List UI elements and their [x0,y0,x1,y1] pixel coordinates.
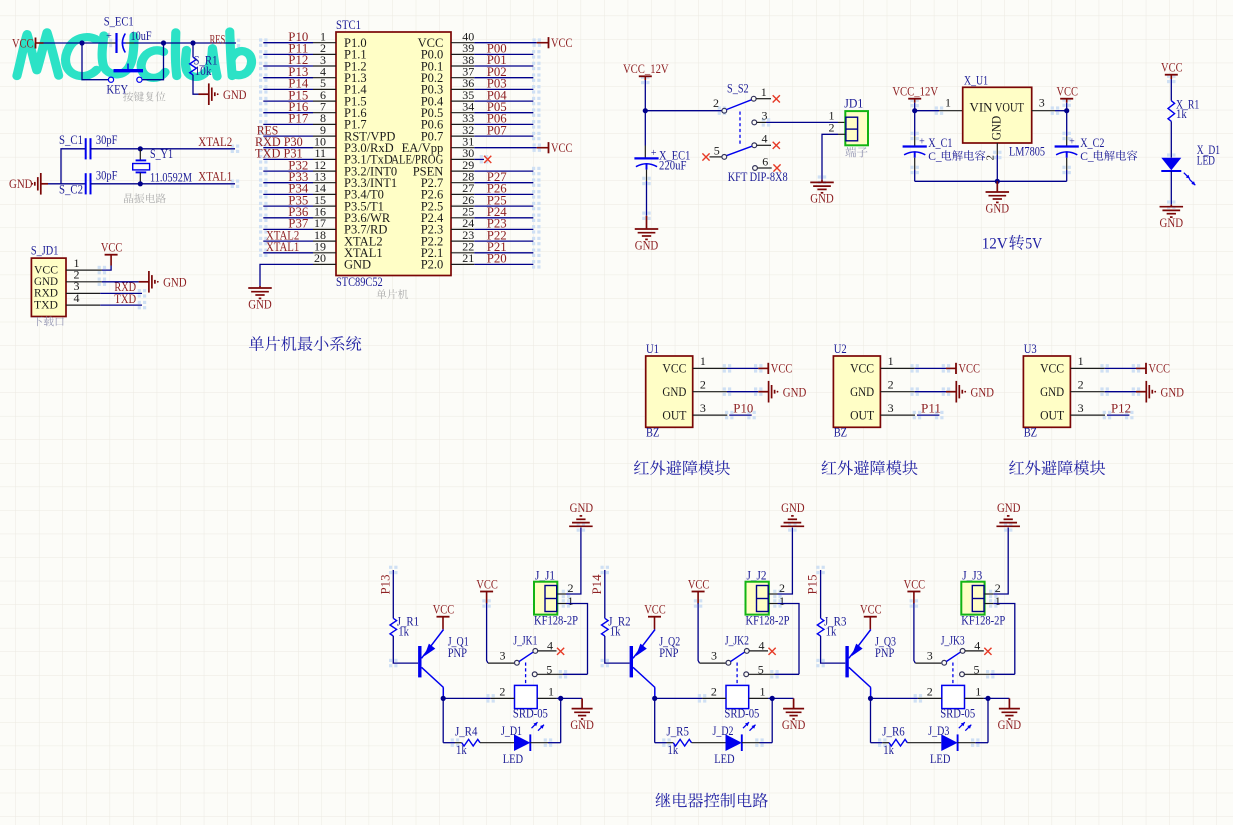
relay part SRD-05 [724,707,759,721]
svg-text:30pF: 30pF [96,168,118,182]
J_JK1 pin 3 [500,648,520,665]
svg-text:6: 6 [762,154,768,168]
svg-text:2: 2 [888,378,894,392]
resistor J_R6 [882,724,907,757]
ground (crystal) [9,173,48,195]
ground (flipped) [781,500,805,526]
module U3 designator [1024,342,1037,356]
J_JK2 pin 3 [711,648,731,665]
svg-text:1: 1 [779,594,785,608]
svg-text:2: 2 [829,121,835,135]
switch J_JK3 designator [941,634,965,648]
svg-text:C_: C_ [1080,151,1094,163]
svg-text:XTAL2: XTAL2 [198,134,232,149]
title 12V转5V [982,235,1043,253]
wire J_R1 to base [393,636,418,663]
svg-text:VCC: VCC [1040,362,1064,376]
svg-text:TXD: TXD [114,291,136,306]
svg-text:X_C2: X_C2 [1080,136,1104,150]
power VCC (J_Q2 emitter) [644,602,666,630]
U3 pin 1 wire [1070,354,1136,368]
LED J_D2 [713,722,756,766]
S_S2 pin 1 wire / no-ERC [751,85,780,103]
svg-text:3: 3 [711,648,717,662]
svg-text:GND: GND [163,274,187,289]
svg-text:11.0592M: 11.0592M [150,170,192,184]
svg-text:LED: LED [930,752,950,766]
svg-text:+: + [1069,136,1075,147]
module U2 type BZ [834,425,847,439]
STC1 pin 15 (P3.5/T1) wire / net P35 [263,192,384,213]
svg-text:VCC: VCC [551,35,573,50]
svg-text:2: 2 [711,685,717,699]
svg-text:1: 1 [548,685,554,699]
svg-text:OUT: OUT [1040,408,1064,422]
svg-text:BZ: BZ [1024,425,1037,439]
svg-text:LED: LED [1197,153,1215,167]
STC1 pin 9 (RST/VPD) wire / net RES [257,122,396,143]
connector J_J3 designator [962,569,982,583]
STC1 pin 11 (P3.1/TxD) wire / net TXD P31 [255,146,393,167]
wire X_EC1 to ground [646,170,648,216]
module U3 type BZ [1024,425,1037,439]
U3 pin 2 wire [1070,378,1136,392]
J_J3 pin 1 wire [985,594,1015,674]
power VCC_12V (input) [623,61,669,80]
power VCC [946,361,980,376]
U3 pin name VCC [1040,362,1064,376]
wire net P13 to J_R1 [392,570,394,618]
svg-text:1: 1 [945,95,951,109]
wire VCC to J_JK2 pin 3 [698,603,725,663]
svg-text:VCC: VCC [850,362,874,376]
svg-text:U3: U3 [1024,342,1037,356]
svg-text:OUT: OUT [850,408,874,422]
svg-text:2: 2 [713,96,719,110]
title 红外避障模块 [634,460,730,475]
svg-text:S_C2: S_C2 [59,183,83,197]
ground (relay) [570,698,594,732]
wire LED row left [655,742,674,744]
svg-text:LED: LED [503,752,523,766]
STC1 pin 33 (P0.6) wire / net P06 [421,111,534,132]
svg-text:J_J2: J_J2 [747,569,767,583]
wire J_R6 to J_D3 [907,742,941,744]
STC1 pin 14 (P3.4/T0) wire / net P34 [263,181,384,202]
J_J2 pin 1 wire [769,594,799,674]
STC1 pin 26 (P2.5) wire / net P25 [421,192,534,213]
S_S2 pin 5 wire / no-ERC [702,144,726,161]
wire X_C2 lower [1066,158,1068,182]
J_J1 pin 2 wire [557,528,581,595]
svg-text:1k: 1k [883,743,894,757]
svg-text:1: 1 [761,85,767,99]
net label P13 (rotated) [377,575,392,595]
J_J3 pin 2 wire [985,528,1009,595]
wire J_D3 to junction [958,742,988,744]
wire junction to S_EC1 [82,42,117,44]
svg-text:GND: GND [989,116,1003,141]
svg-text:RES: RES [210,32,226,47]
svg-text:VCC: VCC [1056,84,1078,99]
wire junction to LED cathode [560,698,562,742]
S_S2 pin 4 wire / no-ERC [752,132,780,149]
resistor J_R2 [602,614,631,638]
svg-text:P12: P12 [1111,400,1131,415]
svg-text:1k: 1k [456,743,467,757]
J_JK1 pin 4 / no-ERC [533,638,564,655]
svg-text:3: 3 [888,401,894,415]
IC STC1 body [336,32,451,276]
LED J_D3 [928,722,971,766]
transistor J_Q3 (PNP) [847,630,896,688]
svg-text:S_C1: S_C1 [59,133,83,147]
wire VCC to pin3 [1066,103,1068,111]
relay pin 2 wire [871,685,942,699]
STC1 pin 2 (P1.1) wire / net P11 [263,41,366,62]
resistor J_R5 [667,724,692,757]
svg-text:1: 1 [975,685,981,699]
connector J_J1 designator [535,569,555,583]
relay pin 2 wire [443,685,514,699]
svg-text:GND: GND [635,237,659,252]
S_JD1 pin 3 wire / net RXD [66,279,142,294]
wire J_D2 to junction [742,742,772,744]
wire S_EC1 to junction [126,42,164,44]
svg-text:KF128-2P: KF128-2P [534,613,578,627]
svg-text:J_D3: J_D3 [928,724,949,738]
svg-text:J_J3: J_J3 [962,569,982,583]
capacitor S_C1 [59,133,117,159]
svg-text:GND: GND [1160,215,1184,230]
svg-text:VCC: VCC [12,35,34,50]
net label XTAL2 [198,134,232,149]
wire VCC_12V down [644,80,646,111]
wire collector to LED row [442,698,444,742]
S_JD1 pin name TXD [34,297,58,311]
wire X_C1 upper [914,111,916,146]
title 红外避障模块 [1009,460,1105,475]
net label P15 (rotated) [805,575,820,595]
module U1 body [646,356,693,427]
power VCC (J_Q3 emitter) [860,602,882,630]
wire J_R3 to base [821,636,846,663]
junction [912,108,917,113]
STC1 pin 36 (P0.3) wire / net P03 [421,76,534,97]
svg-text:P2.0: P2.0 [421,258,444,272]
svg-text:1k: 1k [610,625,621,639]
svg-text:2: 2 [499,685,505,699]
svg-text:BZ: BZ [834,425,847,439]
svg-text:GND: GND [783,384,807,399]
svg-text:5V: 5V [1025,235,1042,253]
logo MCUclub [17,32,252,78]
svg-text:2: 2 [779,581,785,595]
wire junction to S_S2 pin 2 [645,110,722,112]
svg-text:VOUT: VOUT [995,100,1024,114]
module U1 designator [646,342,659,356]
svg-text:SRD-05: SRD-05 [724,707,759,721]
X_U1 pin name VOUT [995,100,1024,114]
svg-text:1: 1 [700,354,706,368]
svg-text:2: 2 [1078,378,1084,392]
U2 pin 2 wire [880,378,946,392]
wire S_C1 to XTAL2 [91,148,236,150]
wire ground to caps [48,149,86,184]
module U3 body [1023,356,1070,427]
svg-text:+: + [919,136,925,147]
STC1 pin 31 (EA/Vpp) wire [402,135,537,156]
svg-text:VCC: VCC [688,576,710,591]
wire collector to LED row [870,698,872,742]
U2 pin name OUT [850,408,874,422]
STC1 pin 29 (PSEN) wire [413,158,534,179]
ground [946,381,994,403]
J_JK1 pin 5 wire [532,663,587,677]
relay pin 1 wire [749,685,794,699]
junction [770,696,775,701]
wire to net RES [193,42,236,44]
ground (flipped) [996,500,1020,526]
svg-text:U1: U1 [646,342,659,356]
svg-text:4: 4 [762,132,768,146]
relay SRD-05 coil box [515,685,538,708]
svg-text:3: 3 [500,648,506,662]
svg-text:12V: 12V [982,235,1008,253]
svg-text:VCC: VCC [644,602,666,617]
J_J2 part number [746,613,790,627]
svg-text:SRD-05: SRD-05 [940,707,975,721]
wire crystal bottom [139,173,141,184]
regulator X_U1 designator [964,74,988,88]
STC1 pin 4 (P1.3) wire / net P13 [263,64,366,85]
power VCC [537,140,573,155]
wire S_C2 to XTAL1 [91,183,236,185]
wire X_C1 lower [914,158,916,182]
wire J_R4 to J_D1 [480,742,514,744]
capacitor S_EC1 (horizontal electrolytic) [104,15,152,54]
wire collector down [654,688,656,699]
S_JD1 pin 4 wire / net TXD [66,291,142,306]
svg-text:LED: LED [714,752,734,766]
svg-text:2: 2 [568,581,574,595]
S_S2 pin 3 wire to JD1 [752,108,845,125]
S_JD1 pin name VCC [34,262,58,276]
J_JK3 pin 4 / no-ERC [960,638,991,655]
transistor J_Q2 (PNP) [631,630,680,688]
svg-text:1k: 1k [398,625,409,639]
J_JK1 blade [519,652,533,661]
ground (JD1) [810,180,834,206]
svg-text:GND: GND [810,191,834,206]
net label RES [210,32,226,47]
connector JD1 designator [844,96,863,110]
STC1 pin 34 (P0.5) wire / net P05 [421,99,534,120]
J_JK3 pin 5 wire [960,663,1015,677]
resistor S_R1 [190,54,218,78]
svg-text:10uF: 10uF [131,29,152,43]
STC1 pin 10 (P3.0/RxD) wire / net RXD P30 [255,134,394,155]
X_U1 pin name GND (rotated) [989,116,1003,141]
junction [161,40,166,45]
wire VCC_12V to U1 pin1 [914,103,916,111]
ground (STC1) [248,286,272,311]
svg-text:J_D1: J_D1 [501,724,522,738]
svg-text:3: 3 [762,108,768,122]
svg-text:GND: GND [782,717,806,732]
resistor J_R4 [455,724,480,757]
module U1 type BZ [646,425,659,439]
junction [79,40,84,45]
svg-text:+: + [651,148,657,159]
svg-text:1: 1 [995,594,1001,608]
ground (flipped) [569,500,593,526]
S_S2 blade 5-4 [726,146,751,155]
power VCC [537,35,573,50]
wire X_C2 upper [1066,111,1068,146]
STC1 pin 40 (VCC) wire [418,30,537,51]
S_JD1 pin name GND [34,274,58,288]
svg-text:+: + [106,31,112,42]
svg-text:GND: GND [223,87,247,102]
U3 pin name GND [1040,385,1064,399]
svg-text:VCC: VCC [101,240,123,255]
J_JK1 pole dashed link [525,663,527,685]
ground (X_EC1) [635,216,659,253]
U3 pin name OUT [1040,408,1064,422]
STC1 pin 39 (P0.0) wire / net P00 [421,41,534,62]
STC1 pin 7 (P1.6) wire / net P16 [263,99,366,120]
svg-text:P07: P07 [487,122,507,137]
svg-text:P15: P15 [805,575,820,595]
U1 pin 1 wire [693,354,759,368]
power VCC (J_JK1) [476,576,498,603]
svg-text:GND: GND [971,384,995,399]
S_S2 part number [728,170,788,184]
U1 pin 3 wire / net P10 [693,400,754,415]
J_J1 pin 1 wire [557,594,587,674]
svg-text:1k: 1k [826,625,837,639]
capacitor X_C1 [903,136,953,158]
power VCC (LED branch) [1161,60,1183,80]
svg-text:J_D2: J_D2 [713,724,734,738]
wire VCC to junction [44,42,83,44]
svg-text:U2: U2 [834,342,847,356]
wire RES junction to S_R1 [192,43,194,57]
svg-text:VCC_12V: VCC_12V [623,61,669,76]
svg-text:GND: GND [997,500,1021,515]
STC1 pin 21 (P2.0) wire / net P20 [421,251,534,272]
svg-text:S_JD1: S_JD1 [31,243,59,257]
svg-text:J_J1: J_J1 [535,569,555,583]
svg-text:GND: GND [9,176,33,191]
svg-text:VIN: VIN [970,100,993,114]
wire junction to junction [164,42,194,44]
svg-text:X_C1: X_C1 [928,136,952,150]
wire X_D1 to ground [1170,171,1172,205]
X_U1 pin 3 wire [1032,95,1067,110]
wire junction to LED cathode [771,698,773,742]
svg-text:VCC: VCC [662,362,686,376]
svg-text:20: 20 [314,251,326,265]
power VCC (7805 out) [1056,84,1078,103]
resistor X_R1 [1168,97,1199,121]
svg-text:C_: C_ [928,151,942,163]
ground [758,381,806,403]
U2 pin name GND [850,385,874,399]
svg-text:GND: GND [850,385,874,399]
J_JK3 pole dashed link [952,663,954,685]
svg-text:VCC_12V: VCC_12V [892,84,938,99]
svg-text:4: 4 [74,291,80,305]
transistor J_Q1 (PNP) [420,630,469,688]
svg-text:GND: GND [998,717,1022,732]
X_U1 pin name VIN [970,100,993,114]
svg-text:P10: P10 [733,400,753,415]
wire S_R1 to ground [193,75,199,94]
junction [868,696,873,701]
svg-text:VCC: VCC [860,602,882,617]
svg-text:21: 21 [462,251,474,265]
svg-text:J_R6: J_R6 [882,724,904,738]
connector S_JD1 body [31,258,66,316]
net label XTAL1 [198,169,232,184]
svg-text:GND: GND [781,500,805,515]
power VCC (reset net) [12,35,44,50]
svg-text:P11: P11 [921,400,941,415]
STC1 pin 28 (P2.7) wire / net P27 [421,169,534,190]
svg-text:GND: GND [570,717,594,732]
wire VCC to J_JK1 pin 3 [487,603,514,663]
svg-text:2: 2 [985,155,997,161]
svg-text:KFT DIP-8X8: KFT DIP-8X8 [728,170,788,184]
svg-text:SRD-05: SRD-05 [513,707,548,721]
module U2 body [833,356,880,427]
crystal S_Y1 [133,147,192,184]
J_JK3 blade [946,652,960,661]
relay SRD-05 coil box [942,685,965,708]
ground (X_D1) [1160,205,1184,230]
STC1 pin 3 (P1.2) wire / net P12 [263,52,366,73]
svg-text:S_S2: S_S2 [727,82,749,96]
svg-text:XTAL1: XTAL1 [266,239,299,254]
ground (S_R1) [199,83,247,105]
svg-text:GND: GND [1161,384,1185,399]
S_S2 pin 2 [713,96,727,113]
STC1 pin 5 (P1.4) wire / net P14 [263,76,367,97]
junction [652,696,657,701]
wire crystal top [139,149,141,160]
svg-text:P17: P17 [288,111,308,126]
ground (relay) [782,698,806,732]
STC1 pin 25 (P2.4) wire / net P24 [421,204,534,225]
svg-text:VCC: VCC [551,140,573,155]
J_J2 pin 2 wire [769,528,793,595]
wire collector to LED row [654,698,656,742]
J_JK2 pole dashed link [736,663,738,685]
power VCC (J_Q1 emitter) [433,602,455,630]
wire VCC to J_JK3 pin 3 [914,603,941,663]
svg-text:5: 5 [714,144,720,158]
comment 下载口 [33,316,64,326]
STC1 pin 1 (P1.0) wire / net P10 [263,29,366,50]
STC1 pin 20 (GND) wire [260,251,371,286]
power VCC (J_JK2) [688,576,710,603]
S_S2 pole dashed link [739,112,741,145]
junction [985,696,990,701]
svg-text:VCC: VCC [959,361,981,376]
comment 按键复位 [123,92,166,102]
